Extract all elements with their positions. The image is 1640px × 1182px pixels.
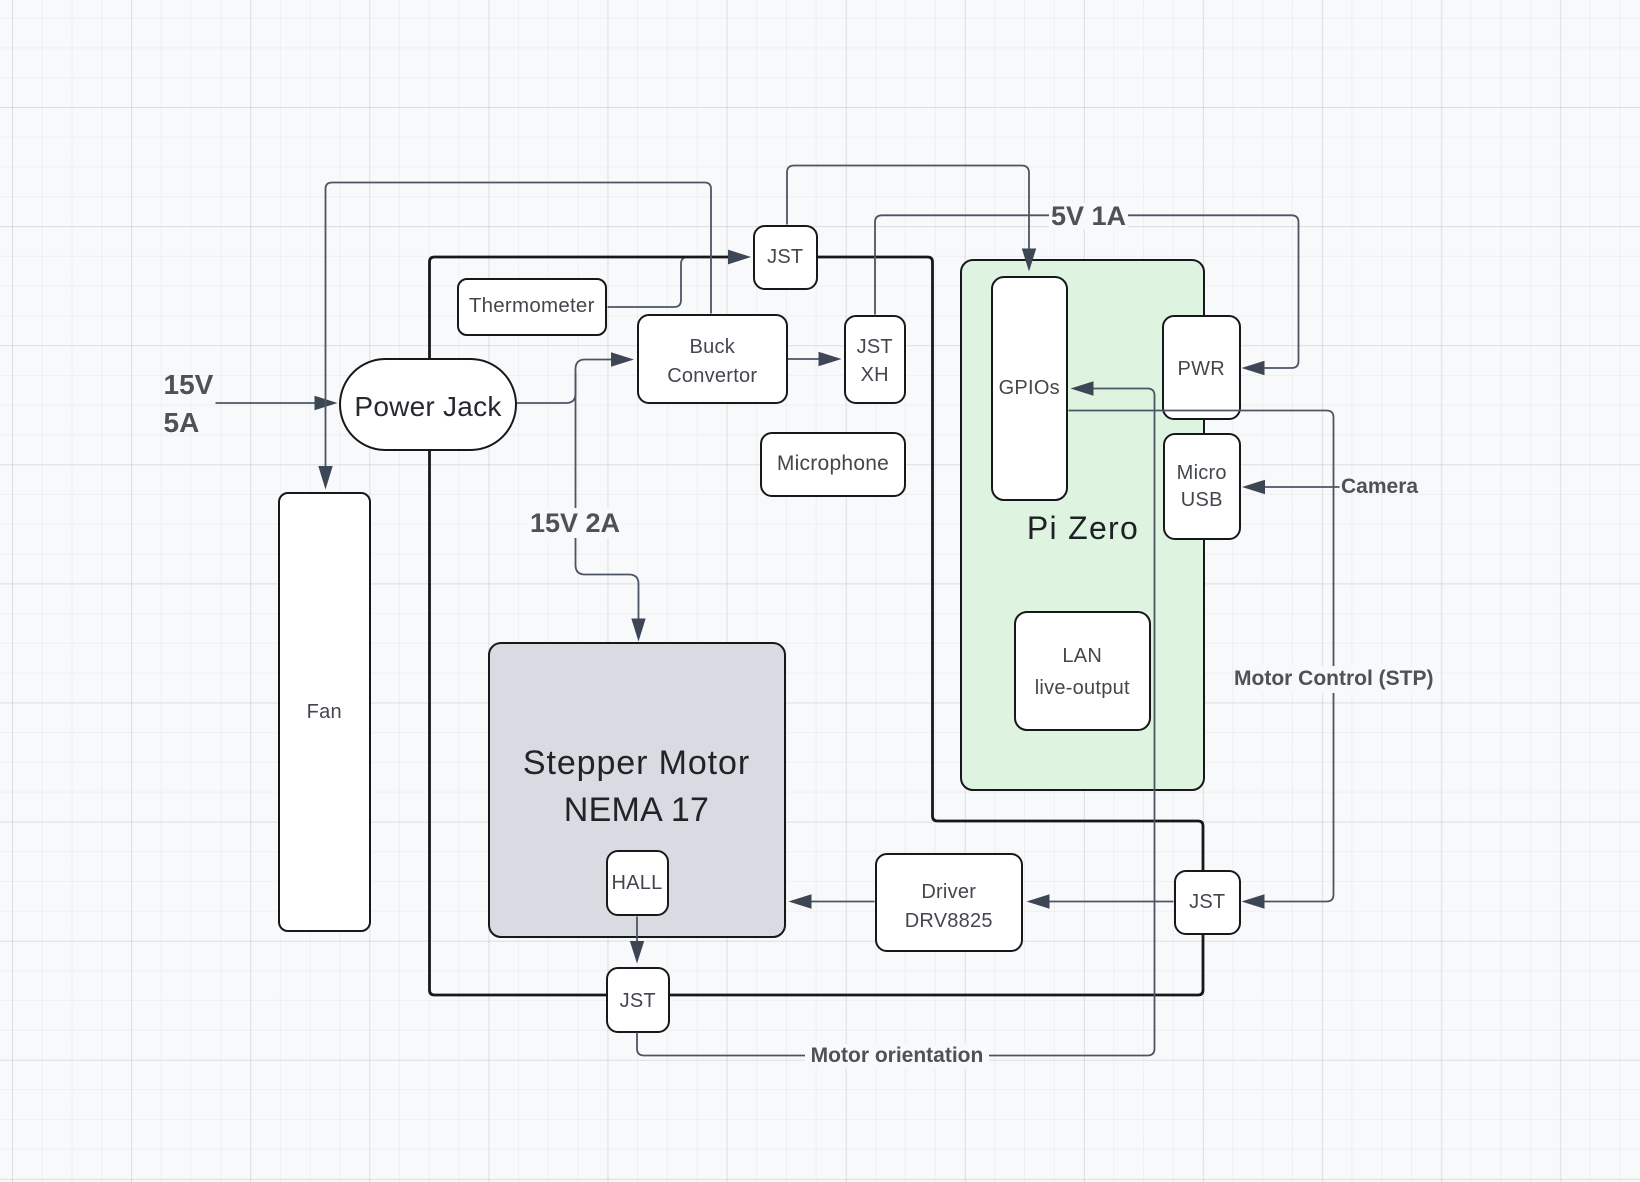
box Power Jack: [339, 358, 517, 451]
box HALL: [606, 850, 669, 916]
box Fan: [278, 492, 372, 933]
arrowhead into Stepper Motor top: [631, 619, 645, 642]
arrowhead into Power Jack: [315, 396, 338, 410]
box Driver DRV8825: [875, 853, 1024, 952]
arrowhead into Micro USB: [1242, 480, 1265, 494]
box JST J1: [753, 225, 818, 290]
label 15V 5A: [164, 366, 214, 443]
wire 15V 5A input: [216, 402, 316, 404]
arrowhead into Stepper Motor: [789, 894, 812, 908]
label Camera: [1341, 477, 1418, 497]
wire Motor orientation JST J3 to GPIOs: [637, 389, 1155, 1056]
wire Motor Control GPIOs to JST J4: [1069, 411, 1334, 902]
label Motor Control (STP): [1234, 666, 1433, 693]
wire 5V 1A JST XH to PWR: [875, 215, 1299, 368]
wire HALL to JST J3: [636, 917, 638, 943]
box Microphone: [760, 432, 906, 497]
label Pi Zero: [1013, 509, 1153, 548]
wire Buck Convertor to JST XH: [788, 358, 820, 360]
wire Camera to Micro USB: [1265, 486, 1340, 488]
box JST XH: [844, 315, 907, 404]
box Pi Zero: [960, 259, 1205, 791]
arrowhead into Buck Convertor: [611, 352, 634, 366]
wire JST J4 to Driver: [1050, 901, 1174, 903]
box PWR: [1162, 315, 1241, 420]
box Thermometer: [457, 278, 608, 336]
wire 15V 2A to Stepper Motor: [576, 373, 639, 619]
box Stepper Motor NEMA 17: [488, 642, 786, 938]
label 5V 1A: [1049, 203, 1128, 229]
arrowhead into JST J1: [728, 250, 751, 265]
box GPIOs: [991, 276, 1069, 501]
box JST J3 bottom: [606, 967, 671, 1033]
label Motor orientation: [805, 1044, 989, 1068]
arrowhead into Fan: [318, 466, 332, 490]
box Micro USB: [1163, 433, 1242, 540]
label 15V 2A: [528, 508, 622, 538]
wire JST J1 to Pi Zero: [787, 166, 1029, 250]
wire Thermometer to JST J1: [608, 257, 704, 307]
wire thick power loop: [430, 257, 1204, 995]
arrowhead into PWR: [1242, 361, 1265, 375]
arrowhead into JST XH: [819, 352, 842, 366]
wire Buck Convertor to Fan: [326, 183, 712, 467]
box JST J4 right: [1174, 870, 1241, 935]
box Buck Convertor: [637, 314, 788, 404]
arrowhead into JST J3: [630, 941, 644, 964]
box LAN live-output: [1014, 611, 1151, 731]
wire Driver to Stepper Motor: [812, 901, 875, 903]
wire Power Jack to Buck Convertor: [517, 360, 612, 404]
arrowhead into Pi Zero: [1022, 249, 1036, 272]
arrowhead into Driver: [1027, 894, 1050, 908]
arrowhead into GPIOs: [1071, 381, 1094, 395]
arrowhead into JST J4: [1242, 894, 1265, 908]
